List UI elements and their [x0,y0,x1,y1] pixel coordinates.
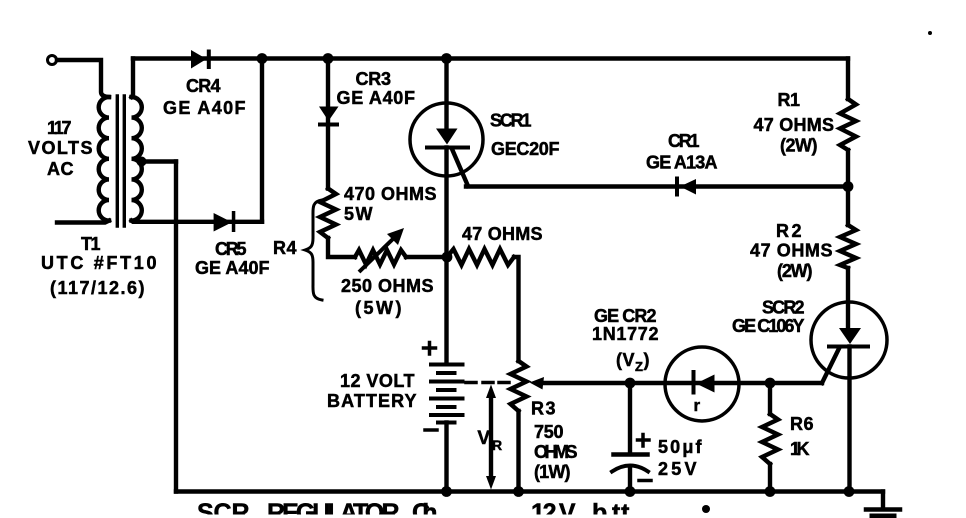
pot R4 arrow [359,236,396,272]
svg-text:47 OHMS: 47 OHMS [750,241,833,261]
resistor 47 ohms horizontal [447,249,514,265]
wire gate rail [466,184,848,188]
wire capacitor bottom [628,468,632,492]
wire CR5 riser [260,59,264,222]
wire R2 to SCR2 [846,268,850,329]
SCR1 triangle [436,129,458,145]
svg-text:47 OHMS: 47 OHMS [754,115,835,135]
wire capacitor branch [628,383,632,453]
diode CR4 [191,50,207,69]
VR arrowhead bottom [486,476,496,490]
node dot R6 top [765,378,776,389]
wire CR3 branch [326,59,330,189]
svg-text:(5W): (5W) [355,298,402,318]
dashed wiper link [466,381,509,385]
svg-text:R4: R4 [273,238,297,258]
resistor R2 [840,225,856,268]
svg-text:R3: R3 [531,399,556,419]
svg-text:AC: AC [47,159,74,179]
svg-text:R: R [492,437,503,453]
battery minus sign [425,428,437,432]
node dot gate rail R1R2 [843,181,854,192]
node dot CR4-CR5 junction [257,53,268,64]
svg-text:1K: 1K [790,439,810,459]
SCR1 gate lead [452,149,468,186]
wire R6 bottom [768,464,772,492]
wire primary top [57,60,109,97]
wire primary bottom [57,221,109,223]
svg-text:CR5: CR5 [215,239,247,259]
SCR2 cathode bar [827,345,870,349]
wire 47 ohm to R3 [514,257,519,361]
svg-text:GE A13A: GE A13A [646,153,718,173]
svg-text:R2: R2 [776,221,802,241]
wire 470 ohm to pot [328,238,355,257]
diode CR5 [214,213,232,232]
wire bottom rail [176,489,883,493]
potentiometer R4b 250 ohms [355,250,406,265]
node dot CR3 top [323,53,334,64]
svg-text:UTC #FT10: UTC #FT10 [41,253,157,273]
diode CR1 [680,179,696,195]
battery B1 plates [431,365,463,423]
svg-text:R1: R1 [778,90,801,110]
svg-text:(2W): (2W) [780,136,818,156]
svg-text:117: 117 [47,118,72,138]
wire SCR2 cathode down [847,347,851,492]
SCR2 triangle [839,328,861,344]
node dot SCR2 bottom [844,486,855,497]
capacitor minus sign [639,479,651,483]
capacitor plus sign [638,435,650,447]
transformer T1 primary winding [99,97,109,221]
svg-text:GE A40F: GE A40F [163,98,246,118]
R3 wiper arrow [530,377,545,390]
node dot pot junction [442,252,453,263]
R4 brace [305,200,322,300]
svg-text:SCR2: SCR2 [762,298,805,318]
SCR2 gate lead [822,349,839,384]
wire secondary bottom lead CR5 [132,221,263,222]
VR arrow line [489,396,493,478]
node dot SCR1 top [441,53,452,64]
svg-text:5W: 5W [344,204,373,224]
svg-text:r: r [693,396,700,415]
resistor R1 [840,99,856,150]
svg-text:(VZ): (VZ) [616,350,650,374]
svg-text:47 OHMS: 47 OHMS [462,224,543,244]
zener CR2 diode [696,375,715,393]
wire R6 branch [768,383,772,414]
node dot R3 bottom [513,486,524,497]
svg-text:GE C106Y: GE C106Y [732,316,805,336]
svg-text:470 OHMS: 470 OHMS [344,184,437,204]
svg-text:CR1: CR1 [668,131,700,151]
zener CR2 circle [665,347,739,421]
svg-text:R6: R6 [790,414,814,434]
transformer T1 secondary winding [132,97,142,221]
terminal J1 input [48,56,57,65]
svg-text:b: b [592,499,608,518]
svg-text:tt: tt [612,499,630,518]
svg-text:SCR1: SCR1 [490,111,532,131]
svg-text:(117/12.6): (117/12.6) [50,278,145,298]
SCR1 cathode bar [425,146,470,150]
svg-text:OHMS: OHMS [534,442,578,462]
battery plus sign [424,343,436,355]
wire R3 bottom [516,411,520,492]
svg-text:GEC20F: GEC20F [491,139,560,159]
wire SCR1 cathode to battery [444,148,448,365]
svg-text:25V: 25V [658,459,697,479]
ground bar 1 [866,507,900,512]
node dot battery bottom [441,486,452,497]
svg-text:(2W): (2W) [777,261,813,281]
wire left vertical return [174,162,178,492]
svg-text:12 VOLT: 12 VOLT [340,371,415,391]
diode CR3 [319,107,339,122]
node dot cap top [625,378,636,389]
node dot cap bottom [625,486,636,497]
svg-text:50μf: 50μf [658,437,703,457]
svg-text:CR4: CR4 [186,76,221,96]
capacitor C1 bottom plate [612,466,648,472]
node dot R6 bottom [765,486,776,497]
capacitor C1 top plate [614,452,648,457]
wire center tap [142,159,177,163]
ground bar 2 [872,514,894,518]
svg-text:SCR: SCR [197,499,250,518]
svg-text:750: 750 [534,422,564,442]
wire battery bottom [444,423,448,492]
ground stem [881,492,885,509]
svg-text:CR3: CR3 [356,69,392,89]
transformer T1 core [117,96,124,226]
resistor R6 [762,414,778,464]
svg-text:VOLTS: VOLTS [28,138,93,158]
SCR1 circle [410,103,483,176]
wire SCR1 branch anode [444,59,448,131]
wire node to R2 [846,187,850,226]
svg-text:V: V [477,428,490,449]
VR arrowhead top [486,385,496,399]
speck caption dot [702,505,710,513]
svg-text:T1: T1 [81,234,101,254]
resistor R4a 470 ohms [320,189,336,239]
svg-text:Ch: Ch [412,499,438,518]
svg-text:1N1772: 1N1772 [592,324,659,344]
wire mid rail [541,381,822,385]
speck top right [928,31,932,35]
wire pot to node [406,255,447,259]
SCR2 circle [811,302,887,378]
svg-text:GE A40F: GE A40F [195,258,270,278]
wire R1 branch [846,59,850,100]
wire top rail [133,56,848,60]
wire secondary top lead [132,59,134,98]
svg-text:BATTERY: BATTERY [327,391,417,411]
svg-text:GE CR2: GE CR2 [594,306,657,326]
node center tap [137,157,147,167]
wire R1 to node [846,150,850,187]
svg-text:GE A40F: GE A40F [337,88,416,108]
svg-text:REGULATOR: REGULATOR [267,499,400,518]
resistor R3 750 ohms [511,361,527,411]
svg-text:250 OHMS: 250 OHMS [341,276,434,296]
svg-text:(1W): (1W) [534,462,571,482]
svg-text:12 V: 12 V [531,499,576,518]
